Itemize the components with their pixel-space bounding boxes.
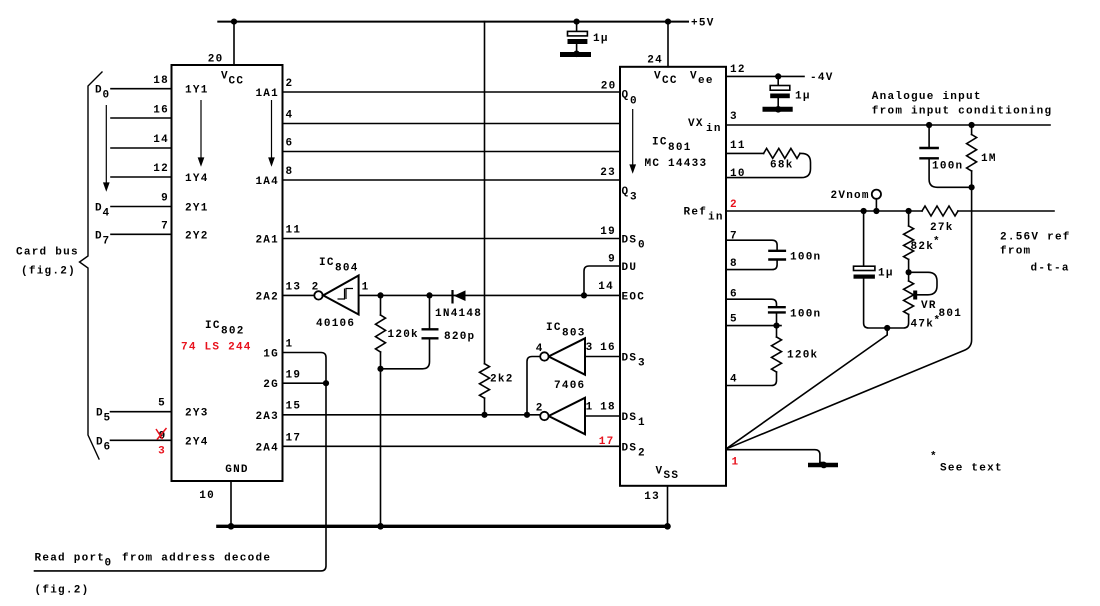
- svg-text:2: 2: [286, 78, 294, 90]
- svg-text:19: 19: [286, 370, 302, 382]
- svg-text:7406: 7406: [554, 380, 585, 392]
- svg-text:9: 9: [161, 193, 169, 205]
- svg-text:1Y4: 1Y4: [185, 173, 209, 185]
- svg-text:2: 2: [312, 282, 320, 294]
- svg-text:CC: CC: [662, 75, 678, 87]
- svg-text:74 LS 244: 74 LS 244: [181, 342, 252, 354]
- svg-text:DU: DU: [622, 262, 638, 274]
- svg-text:IC: IC: [652, 137, 668, 149]
- svg-text:MC 14433: MC 14433: [645, 158, 708, 170]
- svg-text:10: 10: [730, 168, 746, 180]
- svg-text:V: V: [654, 71, 662, 83]
- svg-text:5: 5: [104, 413, 112, 425]
- svg-text:1A1: 1A1: [255, 88, 279, 100]
- svg-text:68k: 68k: [770, 160, 794, 172]
- svg-text:1μ: 1μ: [878, 268, 894, 280]
- svg-text:82k: 82k: [911, 241, 935, 253]
- svg-text:820p: 820p: [444, 331, 475, 343]
- svg-text:3: 3: [586, 342, 594, 354]
- svg-text:5: 5: [730, 314, 738, 326]
- svg-text:18: 18: [153, 75, 169, 87]
- svg-text:7: 7: [730, 231, 738, 243]
- svg-text:10: 10: [199, 490, 215, 502]
- svg-text:d-t-a: d-t-a: [1031, 263, 1070, 275]
- svg-text:+5V: +5V: [691, 18, 715, 30]
- svg-text:6: 6: [104, 441, 112, 453]
- svg-text:*: *: [933, 236, 941, 248]
- svg-text:1G: 1G: [263, 349, 279, 361]
- svg-text:14: 14: [153, 134, 169, 146]
- svg-text:SS: SS: [664, 470, 680, 482]
- svg-text:IC: IC: [319, 257, 335, 269]
- svg-text:DS: DS: [622, 353, 638, 365]
- svg-text:CC: CC: [229, 76, 245, 88]
- svg-text:Card bus: Card bus: [16, 247, 79, 259]
- svg-text:24: 24: [647, 55, 663, 67]
- svg-text:12: 12: [153, 163, 169, 175]
- svg-text:4: 4: [730, 374, 738, 386]
- svg-text:in: in: [706, 123, 722, 135]
- svg-text:47k: 47k: [911, 318, 935, 330]
- svg-text:802: 802: [221, 326, 245, 338]
- svg-text:2A1: 2A1: [255, 235, 279, 247]
- svg-text:1: 1: [286, 339, 294, 351]
- svg-text:2A3: 2A3: [255, 411, 279, 423]
- svg-text:0: 0: [105, 558, 113, 570]
- svg-text:17: 17: [599, 436, 615, 448]
- svg-text:ee: ee: [698, 75, 714, 87]
- svg-text:1A4: 1A4: [255, 176, 279, 188]
- svg-text:Ref: Ref: [684, 207, 708, 219]
- svg-text:7: 7: [103, 235, 111, 247]
- svg-text:40106: 40106: [316, 318, 355, 330]
- svg-text:3: 3: [730, 111, 738, 123]
- svg-text:19: 19: [600, 226, 616, 238]
- svg-text:IC: IC: [546, 322, 562, 334]
- svg-text:2k2: 2k2: [490, 374, 514, 386]
- svg-text:18: 18: [600, 402, 616, 414]
- svg-text:8: 8: [730, 258, 738, 270]
- svg-text:V: V: [656, 466, 664, 478]
- svg-text:3: 3: [638, 358, 646, 370]
- svg-text:6: 6: [730, 289, 738, 301]
- svg-text:IC: IC: [205, 320, 221, 332]
- svg-text:0: 0: [638, 240, 646, 252]
- svg-text:20: 20: [601, 81, 617, 93]
- svg-text:0: 0: [103, 90, 111, 102]
- svg-text:1M: 1M: [981, 153, 997, 165]
- svg-text:804: 804: [335, 263, 359, 275]
- svg-text:100n: 100n: [932, 161, 963, 173]
- svg-text:Q: Q: [622, 90, 630, 102]
- svg-text:100n: 100n: [790, 309, 821, 321]
- svg-text:4: 4: [536, 343, 544, 355]
- svg-text:20: 20: [208, 54, 224, 66]
- svg-text:2Y4: 2Y4: [185, 436, 209, 448]
- svg-text:2Y1: 2Y1: [185, 203, 209, 215]
- svg-text:7: 7: [161, 221, 169, 233]
- svg-text:120k: 120k: [388, 329, 419, 341]
- svg-text:2Vnom: 2Vnom: [831, 190, 870, 202]
- svg-text:2Y2: 2Y2: [185, 230, 209, 242]
- svg-text:1μ: 1μ: [593, 33, 609, 45]
- svg-text:3: 3: [630, 192, 638, 204]
- svg-text:Read port: Read port: [35, 553, 106, 565]
- svg-text:1: 1: [362, 282, 370, 294]
- svg-text:*: *: [930, 451, 938, 463]
- svg-text:8: 8: [286, 166, 294, 178]
- svg-text:DS: DS: [622, 442, 638, 454]
- svg-text:2G: 2G: [263, 379, 279, 391]
- svg-text:Analogue input: Analogue input: [872, 91, 982, 103]
- svg-text:See text: See text: [940, 463, 1003, 475]
- svg-text:15: 15: [286, 401, 302, 413]
- svg-text:from: from: [1000, 246, 1031, 258]
- svg-text:9: 9: [608, 254, 616, 266]
- svg-text:2: 2: [638, 447, 646, 459]
- svg-text:16: 16: [600, 342, 616, 354]
- svg-text:17: 17: [286, 433, 302, 445]
- svg-text:GND: GND: [225, 464, 249, 476]
- svg-text:DS: DS: [622, 235, 638, 247]
- svg-text:23: 23: [600, 167, 616, 179]
- svg-text:2Y3: 2Y3: [185, 408, 209, 420]
- svg-text:(fig.2): (fig.2): [35, 585, 90, 597]
- svg-text:2A2: 2A2: [255, 291, 279, 303]
- svg-text:DS: DS: [622, 412, 638, 424]
- svg-text:1μ: 1μ: [795, 91, 811, 103]
- svg-text:V: V: [690, 71, 698, 83]
- svg-text:4: 4: [286, 110, 294, 122]
- svg-text:2A4: 2A4: [255, 442, 279, 454]
- svg-text:4: 4: [103, 208, 111, 220]
- svg-text:11: 11: [730, 140, 746, 152]
- svg-text:27k: 27k: [930, 222, 954, 234]
- svg-text:(fig.2): (fig.2): [21, 266, 76, 278]
- svg-text:6: 6: [286, 138, 294, 150]
- svg-text:1: 1: [638, 417, 646, 429]
- svg-text:VX: VX: [688, 118, 704, 130]
- svg-text:120k: 120k: [787, 350, 818, 362]
- svg-text:12: 12: [730, 64, 746, 76]
- svg-text:803: 803: [562, 328, 586, 340]
- svg-text:3: 3: [158, 446, 166, 458]
- svg-text:Q: Q: [622, 186, 630, 198]
- svg-text:2: 2: [730, 199, 738, 211]
- svg-text:*: *: [934, 315, 942, 327]
- svg-text:in: in: [708, 212, 724, 224]
- svg-text:13: 13: [644, 491, 660, 503]
- svg-text:2: 2: [536, 403, 544, 415]
- svg-text:5: 5: [158, 398, 166, 410]
- svg-text:801: 801: [939, 308, 963, 320]
- svg-text:14: 14: [598, 281, 614, 293]
- svg-text:13: 13: [286, 282, 302, 294]
- svg-text:11: 11: [286, 225, 302, 237]
- svg-text:1Y1: 1Y1: [185, 85, 209, 97]
- svg-text:0: 0: [630, 95, 638, 107]
- svg-text:-4V: -4V: [810, 72, 834, 84]
- svg-text:1N4148: 1N4148: [435, 308, 482, 320]
- svg-text:801: 801: [668, 142, 692, 154]
- svg-text:from input conditioning: from input conditioning: [872, 106, 1053, 118]
- svg-text:16: 16: [153, 105, 169, 117]
- svg-text:EOC: EOC: [622, 292, 646, 304]
- svg-text:from address decode: from address decode: [122, 553, 271, 565]
- svg-text:100n: 100n: [790, 252, 821, 264]
- svg-text:1: 1: [732, 457, 740, 469]
- svg-text:2.56V ref: 2.56V ref: [1000, 232, 1071, 244]
- svg-text:VR: VR: [921, 300, 937, 312]
- svg-text:1: 1: [586, 402, 594, 414]
